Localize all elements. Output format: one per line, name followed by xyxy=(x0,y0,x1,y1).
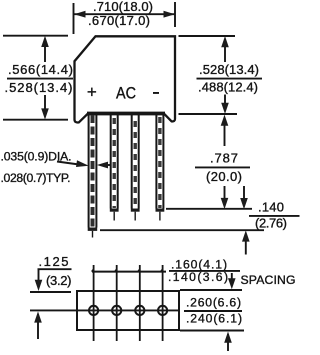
svg-text:.125: .125 xyxy=(39,254,69,269)
wire: spacing leader down arrow xyxy=(231,273,233,282)
wire: right height dim bottom extension line xyxy=(179,113,238,115)
node: spacing tick marks xyxy=(92,269,163,272)
wire: bottom view centre line up arrow (left) xyxy=(37,314,39,339)
bottom view body rectangle xyxy=(77,291,179,330)
wire: lead length dim .787 up arrow xyxy=(224,118,226,146)
lead 3 tail wire xyxy=(134,212,136,221)
lead 3 right edge xyxy=(138,114,140,209)
wire: lead diameter leader arrow pointing left at lead 1 xyxy=(101,164,111,166)
node: lead circle 4 xyxy=(158,306,167,315)
node: left dim down arrow xyxy=(44,95,46,116)
node: right dim down arrow xyxy=(224,95,226,112)
lead 3 left edge xyxy=(131,114,133,209)
lead 1 interior shading xyxy=(91,115,95,227)
wire: bottom view top extension line (left) xyxy=(30,291,71,293)
lead 4 right edge xyxy=(162,114,164,209)
lead 2 tail wire xyxy=(113,212,115,221)
wire: .125 fraction bar xyxy=(38,268,72,270)
lead 4 tail wire xyxy=(159,212,161,221)
lead 1 (+ lead, long) left edge xyxy=(88,114,90,228)
wire: top dimension right extension line xyxy=(174,2,176,27)
wire: lead spacing tick line xyxy=(92,271,166,273)
lead 1 right edge xyxy=(95,114,97,228)
svg-text:.140(3.6): .140(3.6) xyxy=(168,270,228,284)
svg-text:SPACING: SPACING xyxy=(241,273,296,287)
wire: bottom view lead 4 line xyxy=(162,265,164,341)
wire: lead length dim .787 down arrow xyxy=(224,186,226,206)
svg-text:.140: .140 xyxy=(258,200,284,215)
svg-text:.240(6.1): .240(6.1) xyxy=(186,312,242,326)
wire: left height dim bottom extension line xyxy=(3,119,68,121)
svg-text:.528(13.4): .528(13.4) xyxy=(199,62,259,77)
lead 4 interior shading xyxy=(158,117,161,208)
lead 1 tail wire xyxy=(92,231,94,238)
node: right dim up arrow xyxy=(224,39,226,62)
svg-text:.528(13.4): .528(13.4) xyxy=(5,80,73,95)
svg-text:+: + xyxy=(87,83,97,102)
wire: .260 dim up arrow xyxy=(227,334,229,351)
wire: lead end plane line xyxy=(166,208,252,210)
body outline of bridge rectifier (front view) xyxy=(75,36,176,122)
wire: .140 dim down arrow xyxy=(243,186,245,206)
wire: .125 down arrow xyxy=(38,270,40,286)
svg-text:.566(14.4): .566(14.4) xyxy=(8,62,73,77)
wire: .140 fraction bar xyxy=(249,215,300,217)
wire: .260 fraction bar xyxy=(184,310,242,312)
wire: bottom view bottom extension line (right) xyxy=(180,330,244,332)
node: lead circle 1 xyxy=(89,306,98,315)
node: top dimension right arrowhead xyxy=(164,11,176,18)
lead 4 left edge xyxy=(155,114,157,209)
node: left dim up arrow xyxy=(44,39,46,62)
svg-text:.028(0.7)TYP.: .028(0.7)TYP. xyxy=(1,171,71,185)
svg-text:(20.0): (20.0) xyxy=(206,169,242,184)
node: lead circle 2 xyxy=(112,306,121,315)
lead 2 left edge xyxy=(110,114,112,209)
svg-text:(3.2): (3.2) xyxy=(46,273,72,288)
svg-text:(2.76): (2.76) xyxy=(255,216,287,231)
svg-text:.488(12.4): .488(12.4) xyxy=(198,80,258,95)
svg-text:.670(17.0): .670(17.0) xyxy=(88,13,150,28)
svg-text:AC: AC xyxy=(116,85,136,103)
wire: left fraction bar .566/.528 xyxy=(7,78,73,80)
wire: right height dim top extension line xyxy=(179,35,236,37)
node: lead circle 3 xyxy=(135,306,144,315)
wire: left height dim top extension line xyxy=(3,35,68,37)
wire: .787 fraction bar xyxy=(195,166,250,168)
lead 2 end cap xyxy=(110,209,119,212)
wire: body bottom edge thickening xyxy=(87,111,165,113)
wire: spacing fraction bar .160/.140 xyxy=(169,270,240,272)
svg-text:.787: .787 xyxy=(210,151,238,166)
wire: bottom view top extension line (right) xyxy=(180,289,242,291)
lead 3 end cap xyxy=(131,209,140,212)
lead 1 end cap xyxy=(88,228,98,231)
wire: right fraction bar .528/.488 xyxy=(197,78,263,80)
wire: bottom view lead 2 line xyxy=(116,265,118,341)
label - polarity marking xyxy=(153,92,159,94)
node: top dimension left arrowhead xyxy=(74,11,86,18)
wire: top dimension line .710 xyxy=(74,13,175,15)
wire: bottom stand-off plane line xyxy=(100,229,264,231)
wire: bottom view lead 3 line xyxy=(139,265,141,341)
wire: top dimension left extension line xyxy=(73,3,75,34)
lead 3 interior shading xyxy=(133,121,136,208)
wire: bottom view lead centre line xyxy=(30,309,179,311)
lead 2 interior shading xyxy=(112,118,115,208)
wire: .140 dim up arrow xyxy=(245,234,247,255)
lead 2 right edge xyxy=(117,114,119,209)
svg-text:.035(0.9)DIA.: .035(0.9)DIA. xyxy=(1,150,72,164)
svg-text:.260(6.6): .260(6.6) xyxy=(186,296,241,310)
wire: bottom view lead 1 line xyxy=(93,265,95,341)
wire: lead diameter leader arrow pointing right at lead 1 xyxy=(57,162,79,165)
lead 4 end cap xyxy=(156,209,165,212)
